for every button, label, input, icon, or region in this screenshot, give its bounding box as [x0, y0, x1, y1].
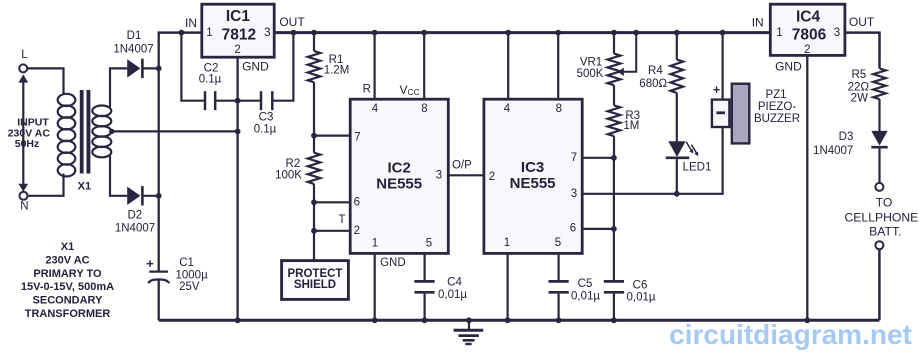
svg-text:IN: IN [185, 16, 197, 30]
svg-text:PIEZO-: PIEZO- [758, 101, 797, 113]
svg-text:+: + [146, 256, 154, 271]
resistor R2 [308, 153, 321, 184]
node wiper rail [633, 30, 639, 36]
svg-text:3: 3 [264, 27, 270, 39]
wire C2-C3 [216, 100, 259, 102]
svg-text:+: + [713, 83, 720, 97]
wire R1-R2 [313, 82, 315, 153]
svg-text:TRANSFORMER: TRANSFORMER [25, 308, 111, 320]
svg-text:1: 1 [504, 237, 510, 249]
wire IC2 pin4 [374, 33, 376, 100]
svg-text:15V-0-15V, 500mA: 15V-0-15V, 500mA [21, 281, 114, 293]
input arrow [22, 80, 24, 185]
resistor R3 [608, 105, 621, 136]
wire IC3 pin8 [557, 33, 559, 100]
resistor R1 [308, 51, 321, 82]
wire VR1 top [613, 33, 615, 54]
svg-text:4: 4 [372, 103, 379, 115]
protect shield box [282, 261, 349, 300]
svg-text:T: T [338, 214, 345, 226]
wire IC3 pin1 [507, 253, 509, 320]
svg-text:680Ω: 680Ω [639, 78, 667, 90]
svg-text:LED1: LED1 [683, 161, 712, 173]
wire secondary bottom [110, 156, 127, 196]
wire D2 cathode [143, 195, 159, 197]
svg-text:3: 3 [571, 188, 577, 200]
node pin7 junction [311, 133, 317, 139]
svg-text:C3: C3 [259, 112, 274, 124]
svg-text:1N4007: 1N4007 [113, 44, 153, 56]
wire IC3 pin4 [507, 33, 509, 100]
svg-text:OUT: OUT [849, 15, 875, 29]
wire IC2 pin5 [424, 253, 426, 280]
svg-text:C4: C4 [447, 277, 462, 289]
capacitor C5 [549, 280, 569, 283]
wire R2 to protect shield [313, 184, 315, 261]
svg-text:IC1: IC1 [226, 8, 251, 25]
svg-text:25V: 25V [179, 281, 200, 293]
svg-text:IN: IN [752, 15, 764, 29]
capacitor C1 [149, 271, 168, 273]
svg-text:7: 7 [571, 152, 577, 164]
svg-text:100K: 100K [275, 170, 302, 182]
wire IC2 pin2 [314, 230, 350, 232]
wire top rail [274, 31, 770, 34]
svg-text:5: 5 [426, 237, 432, 249]
timer IC3 [484, 99, 582, 253]
svg-text:VR1: VR1 [580, 57, 602, 69]
wire D3 to terminal [878, 149, 880, 183]
terminal output + [875, 183, 883, 191]
wire IC2 pin7 [314, 135, 350, 137]
svg-text:1000µ: 1000µ [175, 269, 208, 281]
svg-text:PRIMARY TO: PRIMARY TO [33, 268, 102, 280]
svg-text:0.1µ: 0.1µ [199, 74, 222, 86]
svg-text:6: 6 [570, 223, 576, 235]
svg-text:7: 7 [354, 131, 360, 143]
svg-text:1: 1 [372, 237, 378, 249]
svg-text:1M: 1M [623, 120, 639, 132]
svg-text:N: N [20, 201, 28, 213]
svg-text:3: 3 [834, 27, 840, 39]
svg-text:2: 2 [234, 44, 240, 56]
node R4 rail [674, 30, 680, 36]
wire IC1 IN [158, 31, 202, 34]
svg-text:230V AC: 230V AC [45, 254, 89, 266]
node bottom rail C5 [556, 317, 562, 323]
svg-text:X1: X1 [78, 180, 91, 192]
node D1 junction [156, 66, 162, 72]
svg-text:8: 8 [421, 103, 427, 115]
svg-text:6: 6 [354, 196, 360, 208]
wire LED1 cathode [676, 159, 678, 194]
capacitor C4 [414, 280, 434, 283]
node bottom rail C6 [611, 317, 617, 323]
svg-text:7806: 7806 [792, 27, 827, 44]
capacitor C6 [604, 280, 624, 283]
svg-text:IC4: IC4 [796, 9, 821, 26]
svg-text:TO: TO [876, 195, 893, 209]
node VR1 rail [611, 30, 617, 36]
node pin7 IC3 junction [611, 155, 617, 161]
svg-text:SECONDARY: SECONDARY [33, 295, 104, 307]
wire IC1 GND vertical [236, 57, 238, 320]
ground symbol [468, 320, 470, 329]
wire IC4 OUT [845, 33, 880, 62]
svg-text:GND: GND [380, 257, 406, 269]
svg-text:SHIELD: SHIELD [294, 279, 336, 291]
node bottom rail C4 [422, 317, 428, 323]
timer IC2 [350, 99, 448, 253]
node center tap junction [235, 129, 241, 135]
node IC2 pin8 rail [421, 30, 427, 36]
node R1 top [311, 30, 317, 36]
node C2 top [179, 30, 185, 36]
wire pin6 to C6 [613, 229, 615, 280]
terminal L [19, 64, 27, 72]
transformer X1 primary winding [58, 94, 76, 106]
node IC3 pin4 rail [505, 30, 511, 36]
svg-text:R2: R2 [286, 158, 301, 170]
svg-text:BUZZER: BUZZER [754, 113, 800, 125]
node center tap [109, 129, 114, 134]
terminal output - [875, 241, 883, 249]
wire IC3 pin7 [582, 157, 614, 159]
node IC3 pin8 rail [555, 30, 561, 36]
wire pin7 to pin6 junction [613, 158, 615, 229]
wire IC3 pin5 [557, 253, 559, 280]
node IC2 pin4 rail [372, 30, 378, 36]
svg-text:R5: R5 [851, 69, 866, 81]
wire IC2 pin1 [374, 253, 376, 320]
capacitor C3 [260, 91, 263, 110]
node D2 junction [156, 193, 162, 199]
svg-text:0,01µ: 0,01µ [626, 291, 655, 303]
node C3 top [291, 30, 297, 36]
transformer X1 secondary winding [92, 106, 111, 117]
wire VR1-R3 [613, 85, 615, 105]
svg-text:0,01µ: 0,01µ [438, 289, 467, 301]
node bottom rail IC3 pin1 [505, 317, 511, 323]
svg-text:C6: C6 [633, 280, 648, 292]
svg-text:D2: D2 [127, 210, 142, 222]
wire IC4 GND [806, 55, 808, 320]
svg-text:2W: 2W [851, 93, 868, 105]
wire O/P [448, 174, 484, 176]
node pin6 IC3 junction [611, 226, 617, 232]
wire IC2 pin8 [423, 33, 425, 100]
transformer X1 core [80, 90, 84, 174]
node bottom rail GND line [235, 317, 241, 323]
svg-text:D3: D3 [839, 131, 854, 143]
svg-text:IC3: IC3 [521, 159, 544, 176]
node pin6 junction [311, 199, 317, 205]
resistor R4 [671, 60, 684, 93]
svg-text:4: 4 [504, 103, 511, 115]
wire secondary top [110, 68, 127, 107]
wire L to primary [27, 68, 63, 95]
wire buzzer top [721, 33, 723, 100]
buzzer PZ1 [712, 100, 730, 127]
wire R3 bottom [613, 136, 615, 158]
svg-text:500K: 500K [577, 68, 604, 80]
wire bottom rail [159, 319, 880, 322]
wire center tap to ground node [112, 130, 238, 132]
regulator IC4 [770, 4, 845, 55]
wire C3 right [274, 34, 294, 101]
svg-text:PROTECT: PROTECT [288, 268, 343, 280]
svg-text:R: R [363, 84, 371, 96]
svg-text:0.1µ: 0.1µ [254, 124, 277, 136]
wire IC3 pin3 [582, 127, 722, 194]
svg-text:L: L [21, 49, 28, 61]
wire IC3 pin6 [582, 228, 614, 230]
svg-text:C5: C5 [578, 278, 593, 290]
svg-text:7812: 7812 [222, 26, 256, 43]
svg-text:CELLPHONE: CELLPHONE [844, 210, 918, 224]
wire D1 cathode [143, 67, 159, 69]
svg-text:1N4007: 1N4007 [813, 145, 853, 157]
wire output return [878, 250, 881, 321]
svg-text:2: 2 [354, 225, 360, 237]
svg-text:8: 8 [556, 103, 562, 115]
diode D1 [127, 59, 140, 77]
svg-text:PZ1: PZ1 [765, 89, 786, 101]
svg-text:GND: GND [775, 60, 802, 74]
svg-text:BATT.: BATT. [869, 225, 901, 239]
svg-text:C1: C1 [179, 257, 194, 269]
wire rectified V vertical [158, 33, 160, 271]
svg-text:5: 5 [555, 237, 561, 249]
svg-text:50Hz: 50Hz [15, 138, 40, 150]
svg-text:1.2M: 1.2M [324, 65, 350, 77]
svg-text:1: 1 [776, 27, 782, 39]
terminal N [20, 192, 28, 200]
svg-text:2: 2 [804, 44, 810, 56]
svg-text:NE555: NE555 [376, 176, 422, 193]
svg-text:circuitdiagram.net: circuitdiagram.net [669, 319, 912, 350]
node LED junction [674, 191, 680, 197]
svg-text:0,01µ: 0,01µ [571, 291, 600, 303]
resistor R5 [878, 62, 881, 69]
node bottom rail IC4 GND [804, 317, 810, 323]
svg-text:3: 3 [436, 170, 442, 182]
wire N to primary [28, 174, 64, 196]
wire R5-D3 [878, 99, 880, 131]
svg-text:IC2: IC2 [388, 160, 411, 177]
svg-text:1: 1 [206, 27, 212, 39]
node buzzer rail [720, 30, 726, 36]
svg-text:NE555: NE555 [510, 175, 556, 192]
diode D3 [871, 131, 887, 146]
wire R4 top [676, 33, 678, 60]
wire C2 left [181, 33, 203, 101]
svg-text:R4: R4 [648, 65, 663, 77]
wire R4-LED [676, 93, 678, 141]
svg-text:X1: X1 [61, 241, 74, 253]
wire R1 top [313, 33, 315, 52]
svg-text:OUT: OUT [279, 15, 305, 29]
node pin2 junction [311, 228, 317, 234]
diode D2 [127, 187, 140, 205]
node bottom rail earth [466, 317, 472, 323]
potentiometer VR1 [608, 54, 621, 86]
svg-text:2: 2 [489, 171, 495, 183]
capacitor C2 [204, 91, 207, 110]
svg-text:O/P: O/P [452, 160, 472, 172]
wiper VR1 [623, 33, 636, 72]
svg-text:D1: D1 [127, 30, 142, 42]
wire IC2 pin6 [314, 201, 350, 203]
LED LED1 [668, 141, 685, 157]
svg-text:1N4007: 1N4007 [115, 223, 155, 235]
regulator IC1 [202, 4, 274, 57]
node bottom rail IC2 pin1 [372, 317, 378, 323]
svg-text:GND: GND [242, 60, 269, 74]
node GND cap junction [235, 98, 241, 104]
